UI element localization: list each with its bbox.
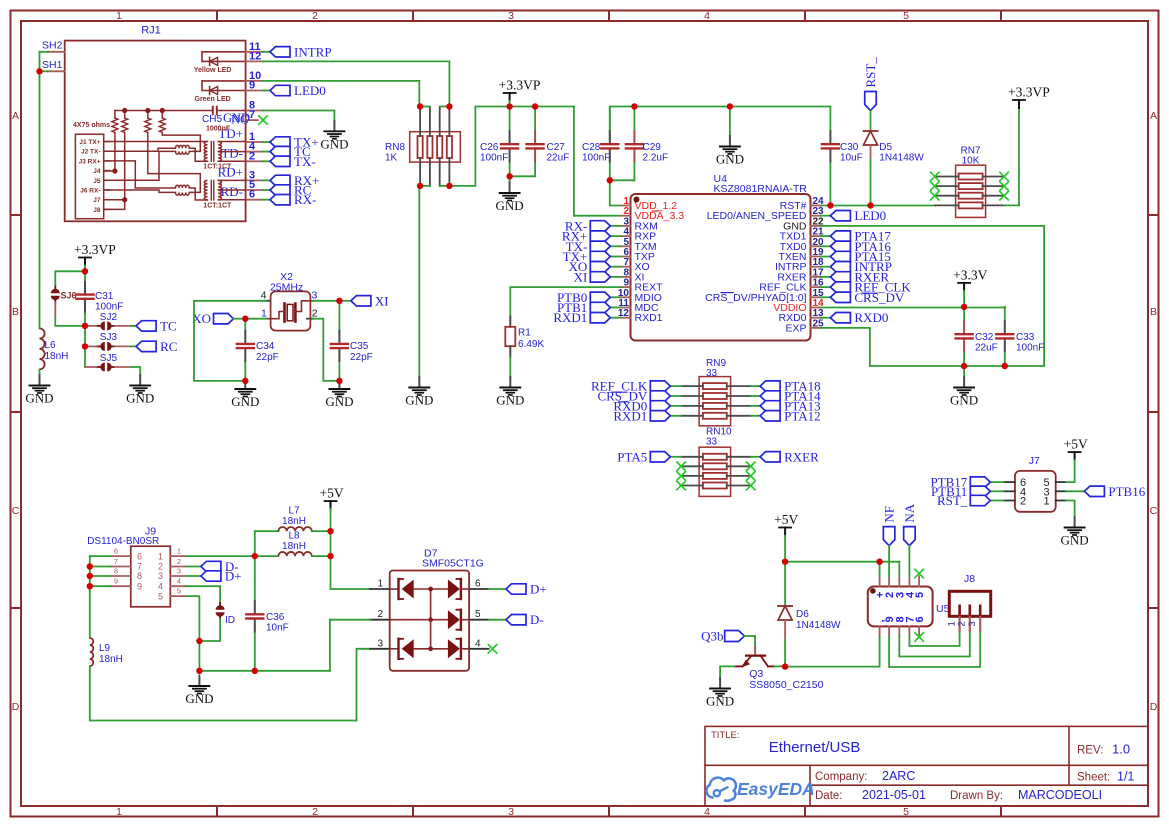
svg-text:NA: NA [902, 503, 917, 522]
svg-text:2: 2 [312, 307, 318, 319]
svg-text:B: B [1150, 306, 1157, 318]
svg-text:GND: GND [1061, 533, 1089, 548]
svg-text:3: 3 [377, 638, 383, 649]
svg-text:1: 1 [177, 547, 181, 556]
svg-text:GND: GND [405, 393, 433, 408]
svg-text:GND: GND [231, 394, 259, 409]
svg-text:1N4148W: 1N4148W [796, 620, 841, 631]
svg-text:NC: NC [231, 113, 248, 127]
svg-text:18nH: 18nH [99, 654, 123, 665]
svg-text:RXER: RXER [784, 449, 819, 464]
svg-text:L8: L8 [288, 531, 300, 542]
svg-text:SH2: SH2 [42, 40, 63, 52]
svg-text:1N4148W: 1N4148W [879, 153, 924, 164]
svg-text:RN8: RN8 [385, 142, 405, 153]
svg-text:22uF: 22uF [975, 343, 998, 354]
svg-text:8: 8 [137, 571, 142, 581]
svg-text:9: 9 [249, 80, 255, 92]
svg-text:Ethernet/USB: Ethernet/USB [769, 739, 861, 756]
svg-text:C30: C30 [840, 142, 859, 153]
svg-text:D5: D5 [879, 142, 892, 153]
svg-text:GND: GND [25, 391, 53, 406]
svg-text:GND: GND [496, 393, 524, 408]
svg-text:100nF: 100nF [1016, 343, 1044, 354]
svg-text:4: 4 [177, 577, 181, 586]
svg-text:RXD1: RXD1 [635, 312, 663, 324]
svg-text:2: 2 [1020, 496, 1026, 508]
svg-text:22pF: 22pF [256, 352, 279, 363]
svg-text:22pF: 22pF [350, 352, 373, 363]
svg-text:INTRP: INTRP [294, 44, 332, 59]
svg-text:GND: GND [185, 691, 213, 706]
svg-text:7: 7 [114, 557, 118, 566]
svg-text:REV:: REV: [1077, 745, 1103, 757]
svg-text:+5V: +5V [774, 512, 798, 527]
svg-text:SS8050_C2150: SS8050_C2150 [749, 679, 823, 691]
svg-text:Yellow LED: Yellow LED [194, 67, 232, 74]
svg-text:RXD1: RXD1 [553, 310, 587, 325]
svg-text:RX-: RX- [294, 192, 316, 207]
svg-text:GND: GND [496, 198, 524, 213]
svg-text:C26: C26 [480, 142, 499, 153]
svg-text:1CT:1CT: 1CT:1CT [203, 164, 232, 171]
svg-text:6.49K: 6.49K [518, 339, 544, 350]
svg-text:SJ5: SJ5 [100, 353, 118, 364]
svg-text:4: 4 [704, 10, 710, 22]
svg-text:1: 1 [158, 551, 163, 561]
svg-text:6: 6 [137, 551, 142, 561]
svg-text:C33: C33 [1016, 332, 1035, 343]
svg-text:Q3b: Q3b [701, 629, 723, 644]
svg-text:100nF: 100nF [95, 302, 123, 313]
svg-text:D: D [1150, 701, 1158, 713]
svg-text:+5V: +5V [320, 486, 344, 501]
svg-text:GND: GND [320, 136, 348, 151]
svg-text:1: 1 [261, 308, 267, 320]
svg-text:4X75 ohms: 4X75 ohms [73, 122, 110, 129]
svg-text:10K: 10K [962, 156, 980, 167]
svg-text:L6: L6 [45, 340, 57, 351]
svg-text:RST_: RST_ [863, 57, 878, 88]
svg-text:1: 1 [1043, 496, 1049, 508]
svg-text:CRS_DV: CRS_DV [854, 290, 904, 305]
svg-text:4: 4 [261, 290, 267, 302]
svg-text:2.2uF: 2.2uF [643, 153, 669, 164]
svg-text:CH5: CH5 [202, 114, 222, 125]
svg-text:1CT:1CT: 1CT:1CT [203, 203, 232, 210]
svg-text:NF: NF [882, 506, 897, 523]
svg-text:SJ3: SJ3 [100, 332, 118, 343]
svg-text:33: 33 [706, 437, 718, 448]
svg-text:J8: J8 [964, 573, 975, 585]
svg-text:5: 5 [903, 806, 909, 818]
svg-text:GND: GND [126, 391, 154, 406]
svg-text:DS1104-BN0SR: DS1104-BN0SR [87, 536, 159, 547]
svg-text:RXD1: RXD1 [613, 408, 647, 423]
svg-text:C27: C27 [547, 142, 566, 153]
svg-text:RC: RC [160, 339, 177, 354]
svg-text:MARCODEOLI: MARCODEOLI [1018, 788, 1102, 802]
svg-text:1/1: 1/1 [1117, 770, 1134, 784]
svg-text:+3.3VP: +3.3VP [74, 242, 116, 257]
svg-text:5: 5 [914, 592, 926, 598]
svg-text:2021-05-01: 2021-05-01 [862, 788, 926, 802]
svg-text:6: 6 [114, 547, 118, 556]
svg-text:3: 3 [508, 806, 514, 818]
svg-text:9: 9 [137, 581, 142, 591]
svg-text:J7: J7 [93, 197, 101, 204]
svg-text:10nF: 10nF [266, 623, 289, 634]
svg-text:LED0: LED0 [294, 83, 326, 98]
svg-text:18nH: 18nH [282, 516, 306, 527]
svg-text:5: 5 [158, 591, 163, 601]
svg-text:1.0: 1.0 [1112, 742, 1130, 757]
svg-text:C29: C29 [643, 142, 662, 153]
svg-text:PTA12: PTA12 [784, 408, 821, 423]
svg-text:TD-: TD- [221, 146, 243, 161]
svg-text:D: D [12, 701, 20, 713]
svg-text:J1 TX+: J1 TX+ [79, 139, 100, 146]
svg-text:J8: J8 [93, 207, 101, 214]
svg-text:RXD0: RXD0 [854, 310, 888, 325]
svg-text:1: 1 [116, 10, 122, 22]
svg-text:1: 1 [377, 579, 383, 590]
svg-text:R1: R1 [518, 328, 531, 339]
svg-text:C31: C31 [95, 291, 114, 302]
svg-text:+5V: +5V [1064, 437, 1088, 452]
svg-text:U5: U5 [936, 603, 950, 615]
svg-text:L7: L7 [288, 506, 300, 517]
svg-text:PTA5: PTA5 [617, 449, 647, 464]
svg-text:2: 2 [312, 806, 318, 818]
svg-text:2ARC: 2ARC [882, 769, 915, 783]
svg-text:1: 1 [116, 806, 122, 818]
svg-text:8: 8 [114, 567, 118, 576]
svg-text:6: 6 [475, 579, 481, 590]
svg-text:5: 5 [177, 587, 181, 596]
svg-text:XI: XI [375, 293, 389, 308]
svg-text:3: 3 [177, 567, 181, 576]
svg-text:Green LED: Green LED [195, 96, 231, 103]
svg-text:GND: GND [706, 694, 734, 709]
svg-text:+3.3V: +3.3V [953, 267, 987, 282]
svg-text:J2 TX-: J2 TX- [81, 149, 101, 156]
svg-text:7: 7 [137, 562, 142, 572]
svg-text:TX-: TX- [294, 154, 316, 169]
svg-text:C36: C36 [266, 612, 285, 623]
svg-text:SMF05CT1G: SMF05CT1G [422, 558, 484, 570]
svg-text:XI: XI [574, 269, 588, 284]
svg-text:C28: C28 [582, 142, 601, 153]
svg-text:5: 5 [475, 609, 481, 620]
svg-text:Date:: Date: [815, 790, 843, 802]
svg-text:2: 2 [158, 562, 163, 572]
svg-text:100nF: 100nF [582, 153, 610, 164]
svg-text:RJ1: RJ1 [141, 25, 161, 37]
svg-text:3: 3 [312, 290, 318, 302]
svg-text:B: B [12, 306, 19, 318]
svg-text:EasyEDA: EasyEDA [737, 779, 815, 799]
svg-text:Company:: Company: [815, 771, 867, 783]
svg-text:TC: TC [160, 318, 177, 333]
svg-text:J5: J5 [93, 178, 101, 185]
svg-text:4: 4 [704, 806, 710, 818]
svg-text:3: 3 [967, 621, 978, 626]
svg-text:D+: D+ [225, 569, 242, 584]
svg-text:GND: GND [950, 393, 978, 408]
svg-text:J7: J7 [1029, 455, 1040, 467]
svg-text:18nH: 18nH [282, 541, 306, 552]
svg-text:2: 2 [177, 557, 181, 566]
svg-text:Sheet:: Sheet: [1077, 772, 1110, 784]
svg-text:3: 3 [158, 571, 163, 581]
svg-text:2: 2 [249, 150, 255, 162]
svg-text:5: 5 [903, 10, 909, 22]
svg-text:6: 6 [914, 616, 926, 622]
svg-text:C: C [1150, 505, 1158, 517]
svg-text:2: 2 [957, 621, 968, 626]
svg-text:J4: J4 [93, 168, 101, 175]
svg-text:L9: L9 [99, 643, 111, 654]
svg-text:1000pF: 1000pF [206, 126, 231, 133]
svg-text:J6 RX-: J6 RX- [80, 188, 100, 195]
svg-text:6: 6 [249, 189, 255, 201]
svg-text:18nH: 18nH [45, 351, 69, 362]
svg-text:100nF: 100nF [480, 153, 508, 164]
svg-text:4: 4 [158, 581, 163, 591]
svg-text:PTB16: PTB16 [1108, 484, 1145, 499]
svg-text:LED0: LED0 [854, 208, 886, 223]
svg-text:3: 3 [508, 10, 514, 22]
svg-text:C35: C35 [350, 341, 369, 352]
svg-text:J3 RX+: J3 RX+ [79, 158, 101, 165]
svg-text:ID: ID [225, 615, 235, 626]
svg-text:SH1: SH1 [42, 59, 63, 71]
svg-text:KSZ8081RNAIA-TR: KSZ8081RNAIA-TR [714, 183, 808, 195]
svg-text:GND: GND [325, 394, 353, 409]
svg-text:C34: C34 [256, 341, 275, 352]
svg-text:D+: D+ [530, 582, 547, 597]
svg-text:2: 2 [312, 10, 318, 22]
svg-text:D-: D- [530, 612, 544, 627]
svg-text:+3.3VP: +3.3VP [1008, 85, 1050, 100]
svg-text:SJ6: SJ6 [61, 291, 77, 301]
svg-text:Drawn By:: Drawn By: [950, 790, 1003, 802]
svg-text:RST_: RST_ [937, 493, 968, 508]
svg-text:SJ2: SJ2 [100, 312, 118, 323]
svg-text:10uF: 10uF [840, 153, 863, 164]
svg-text:RD-: RD- [221, 184, 243, 199]
svg-text:9: 9 [114, 577, 118, 586]
svg-text:A: A [1150, 110, 1157, 122]
svg-text:D6: D6 [796, 609, 809, 620]
svg-text:22uF: 22uF [547, 153, 570, 164]
svg-text:XO: XO [192, 311, 211, 326]
svg-text:EXP: EXP [785, 322, 806, 334]
svg-text:+3.3VP: +3.3VP [499, 78, 541, 93]
svg-text:A: A [12, 110, 19, 122]
svg-text:4: 4 [475, 638, 481, 649]
svg-text:1K: 1K [385, 153, 398, 164]
svg-text:TITLE:: TITLE: [711, 730, 740, 741]
svg-text:C32: C32 [975, 332, 994, 343]
svg-text:C: C [12, 505, 20, 517]
svg-text:2: 2 [377, 609, 383, 620]
svg-text:GND: GND [716, 152, 744, 167]
svg-text:12: 12 [249, 50, 261, 62]
